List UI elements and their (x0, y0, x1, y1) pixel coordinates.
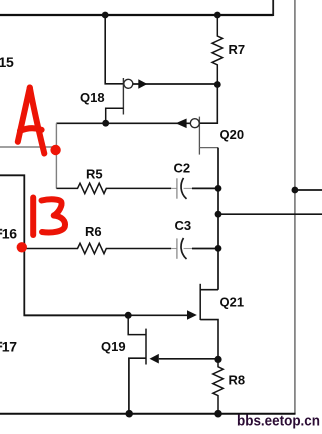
resistor R5 (56, 183, 171, 193)
svg-text:17: 17 (2, 339, 17, 355)
svg-text:R6: R6 (85, 224, 102, 239)
Q20 base bar (198, 117, 200, 155)
C2 left gray lead (171, 187, 176, 189)
svg-text:Q21: Q21 (220, 294, 245, 309)
node junction dot bottom (R8) (214, 410, 222, 418)
wire gray vertical bus at right (294, 0, 296, 414)
node label 17 (partial prefix glyph at edge) (0, 342, 2, 344)
node junction dot on gray bus (292, 187, 299, 194)
wire node A horizontal run (56, 122, 190, 124)
wire Q21 collector L-lead from trunk (200, 289, 218, 291)
node junction dot bottom left (Q19 collector) (125, 410, 133, 418)
C3 flat plate (176, 238, 178, 258)
transistor Q21 (24, 284, 244, 360)
capacitor C2 (171, 160, 218, 199)
node label 16 (partial prefix glyph at edge) (0, 229, 2, 231)
wire from trunk to right edge (218, 213, 322, 215)
resistor R7 (212, 15, 223, 85)
node junction dot Q18 collector on node-A wire (102, 120, 109, 127)
wire top supply rail (0, 14, 273, 16)
C3 left gray lead (171, 248, 176, 250)
Q21 base bar (199, 284, 201, 320)
svg-text:C2: C2 (174, 160, 191, 175)
wire Q21 emitter run from node B (24, 314, 187, 316)
wire C2 to trunk (192, 187, 218, 189)
wire center trunk down to Q21 (217, 148, 219, 290)
Q21 emitter arrow (187, 310, 197, 320)
transistor Q18 (80, 15, 217, 123)
svg-text:bbs.eetop.cn: bbs.eetop.cn (237, 412, 320, 429)
Q20 emitter bubble (190, 119, 199, 128)
Q18 emitter arrow (138, 79, 147, 89)
wire bottom rail (0, 413, 296, 415)
svg-text:R8: R8 (229, 372, 246, 387)
svg-text:15: 15 (0, 54, 14, 70)
C3 curved plate (181, 238, 186, 259)
wire node B left stub and vertical (0, 175, 128, 315)
svg-text:R7: R7 (229, 42, 246, 57)
transistor Q19 (101, 315, 218, 413)
C2 curved plate (181, 178, 186, 199)
wire Q21 lower L-lead to R8 node (200, 320, 218, 360)
C2 right gray lead (184, 187, 192, 189)
wire Q18 collector L-lead (106, 108, 124, 123)
C3 right gray lead (184, 248, 192, 250)
wire Q20 collector L-lead (199, 147, 218, 149)
resistor R8 (213, 359, 223, 413)
Q18 base bar (122, 78, 124, 115)
red annotation period / node A dot (50, 145, 60, 155)
Q19 base bar (145, 329, 147, 365)
wire C3 to trunk (192, 248, 218, 250)
wire Q19 base lead (128, 315, 146, 334)
svg-text:R5: R5 (86, 167, 103, 182)
wire Q19 collector L-lead down to bottom rail (129, 358, 146, 414)
svg-text:16: 16 (2, 226, 17, 242)
node junction dot top-right on rail (214, 12, 221, 19)
capacitor C3 (171, 218, 218, 259)
node junction dot trunk/right wire (215, 211, 222, 218)
node junction dot R8 top (214, 356, 221, 363)
Q18 emitter bubble (124, 79, 133, 88)
wire Q18 base lead from top rail (105, 15, 123, 84)
wire node A gray stub from left edge (0, 146, 56, 148)
red annotation letter A (18, 88, 45, 154)
node junction dot Q19 base tap (125, 312, 132, 319)
wire node A gray vertical (55, 123, 57, 188)
svg-text:Q19: Q19 (101, 339, 126, 354)
resistor R6 (24, 243, 171, 253)
svg-text:Q20: Q20 (220, 127, 245, 142)
node junction dot C2/trunk (215, 185, 222, 192)
red annotation letter B (33, 198, 65, 236)
transistor Q20 (176, 85, 244, 155)
svg-text:C3: C3 (175, 218, 192, 233)
Q19 emitter arrow (150, 354, 159, 364)
wire from gray bus to right edge (295, 189, 322, 191)
red annotation node B dot (17, 242, 27, 252)
wire Q19 emitter to R8 node (159, 358, 218, 360)
node junction dot top-left on rail (102, 12, 109, 19)
svg-text:Q18: Q18 (80, 90, 105, 105)
wire Q18 emitter to node below R7 (133, 83, 217, 85)
wire rail turn up to top edge (272, 0, 274, 16)
Q20 emitter arrow (176, 119, 187, 129)
node junction dot below R7 (214, 81, 221, 88)
wire Q20 base lead from R7 node (199, 85, 217, 124)
node junction dot C3/trunk (215, 245, 222, 252)
C2 flat plate (176, 178, 178, 198)
